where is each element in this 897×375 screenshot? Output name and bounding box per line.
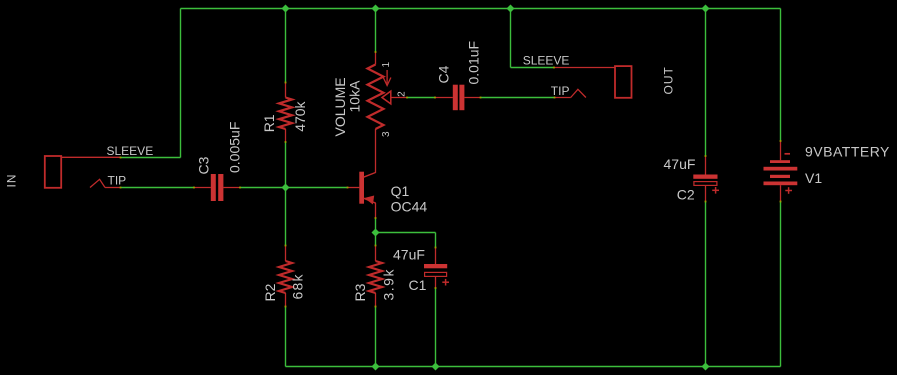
pin 2	[397, 91, 408, 97]
battery V1	[764, 141, 798, 202]
label C1	[409, 277, 427, 293]
wire base node to Q1 base	[286, 187, 348, 189]
pin 3	[381, 131, 392, 137]
value OC44	[391, 199, 428, 215]
svg-text:0.005uF: 0.005uF	[227, 122, 243, 173]
capacitor C3	[194, 174, 240, 201]
wire bottom ground rail	[286, 366, 781, 368]
label C4	[436, 65, 452, 83]
potentiometer VOLUME wiper	[382, 91, 407, 104]
wire base node down to R2	[285, 188, 287, 246]
svg-text:C1: C1	[409, 277, 427, 293]
label V1	[805, 170, 822, 186]
wire emitter node to C1	[376, 232, 436, 234]
wire Q1 emitter to node	[375, 218, 377, 233]
connector input jack body	[45, 156, 61, 188]
svg-text:68k: 68k	[290, 273, 306, 299]
wire C4 to output tip	[481, 97, 555, 99]
wire VOLUME wiper to C4	[407, 97, 435, 99]
pin 1	[381, 62, 392, 68]
output jack sleeve pin wire	[554, 67, 615, 69]
wire input tip to C3	[121, 187, 195, 189]
svg-text:OUT: OUT	[662, 66, 676, 94]
svg-text:470k: 470k	[292, 100, 308, 131]
wire C2 to bottom rail	[705, 202, 707, 367]
svg-text:C2: C2	[677, 187, 695, 203]
value 10kA	[347, 80, 363, 113]
svg-text:47uF: 47uF	[393, 247, 425, 263]
wire top supply rail	[181, 8, 781, 10]
svg-text:1: 1	[381, 62, 392, 68]
svg-text:0.01uF: 0.01uF	[466, 41, 482, 85]
capacitor C2	[693, 156, 717, 202]
resistor R3	[369, 246, 382, 307]
value 470k	[292, 100, 308, 131]
svg-text:IN: IN	[5, 174, 19, 188]
input jack tip contact	[90, 179, 121, 187]
label R1	[261, 114, 277, 132]
pin connection dots	[120, 51, 782, 307]
svg-text:3: 3	[381, 131, 392, 137]
node top rail / C2	[702, 5, 710, 13]
wire emitter node down to R3	[375, 233, 377, 246]
wire battery plus to bottom rail	[780, 202, 782, 367]
connector output jack body	[615, 66, 632, 98]
node top rail / VOLUME	[372, 5, 380, 13]
svg-text:47uF: 47uF	[664, 156, 696, 172]
wire R2 to bottom rail	[285, 307, 287, 367]
net label SLEEVE (input)	[107, 144, 154, 158]
wire top rail to C2	[705, 9, 707, 157]
label IN	[5, 174, 19, 188]
potentiometer VOLUME adjust arrow	[383, 70, 391, 86]
label Q1	[391, 183, 410, 199]
wire left rail down to input sleeve	[180, 9, 182, 158]
transistor Q1	[347, 129, 376, 218]
value 9VBATTERY	[805, 144, 890, 160]
wire top rail to R1	[285, 9, 287, 83]
C2 plus sign	[712, 187, 719, 194]
wire input sleeve to left rail	[121, 157, 181, 159]
svg-text:2: 2	[397, 91, 408, 97]
svg-text:R2: R2	[262, 283, 278, 301]
output jack tip contact	[555, 89, 586, 97]
svg-text:C4: C4	[436, 65, 452, 83]
node emitter of Q1 / R3 / C1	[372, 229, 380, 237]
svg-text:SLEEVE: SLEEVE	[107, 144, 154, 158]
wire top rail to VOLUME pin 1	[375, 9, 377, 53]
node base of Q1 / C3 / R1 / R2	[282, 184, 290, 192]
wire C1 to bottom rail	[435, 288, 437, 367]
label R3	[352, 283, 368, 301]
svg-text:TIP: TIP	[108, 174, 127, 188]
battery plus sign	[785, 187, 792, 194]
wire R1 to base node	[285, 142, 287, 188]
svg-text:R1: R1	[261, 114, 277, 132]
C1 plus sign	[442, 279, 449, 286]
net label SLEEVE (output)	[523, 53, 570, 67]
capacitor C1	[424, 248, 447, 289]
value 0.01uF	[466, 41, 482, 85]
resistor R2	[279, 246, 292, 307]
node bottom rail / R3	[372, 363, 380, 371]
wire output sleeve horizontal	[511, 67, 555, 69]
label OUT	[662, 66, 676, 94]
input jack sleeve pin wire	[61, 156, 120, 158]
svg-text:Q1: Q1	[391, 183, 410, 199]
svg-text:OC44: OC44	[391, 199, 428, 215]
value 47uF (C1)	[393, 247, 425, 263]
label VOLUME	[332, 77, 348, 136]
value 0.005uF	[227, 122, 243, 173]
value 3.9k	[381, 268, 397, 300]
node top rail / output sleeve	[507, 5, 515, 13]
net label TIP (output)	[551, 84, 570, 98]
svg-text:9VBATTERY: 9VBATTERY	[805, 144, 890, 160]
wire R3 to bottom rail	[375, 307, 377, 367]
svg-text:R3: R3	[352, 283, 368, 301]
node bottom rail / C2	[702, 363, 710, 371]
svg-text:TIP: TIP	[551, 84, 570, 98]
node bottom rail / C1	[432, 363, 440, 371]
capacitor C4	[435, 85, 481, 111]
battery minus sign	[785, 153, 791, 155]
label C2	[677, 187, 695, 203]
svg-text:V1: V1	[805, 170, 822, 186]
svg-text:C3: C3	[196, 156, 212, 174]
svg-text:3.9k: 3.9k	[381, 268, 397, 300]
svg-text:SLEEVE: SLEEVE	[523, 53, 570, 67]
label R2	[262, 283, 278, 301]
wire top rail down to output sleeve	[510, 9, 512, 68]
label C3	[196, 156, 212, 174]
resistor R1	[279, 83, 292, 143]
wire top rail to battery minus	[780, 9, 782, 142]
net label TIP (input)	[108, 174, 127, 188]
wire C3 to base node	[240, 187, 286, 189]
wire down to C1 top	[435, 233, 437, 248]
value 68k	[290, 273, 306, 299]
node top rail / R1	[282, 5, 290, 13]
value 47uF (C2)	[664, 156, 696, 172]
svg-text:10kA: 10kA	[347, 80, 363, 113]
potentiometer VOLUME body	[368, 52, 384, 129]
